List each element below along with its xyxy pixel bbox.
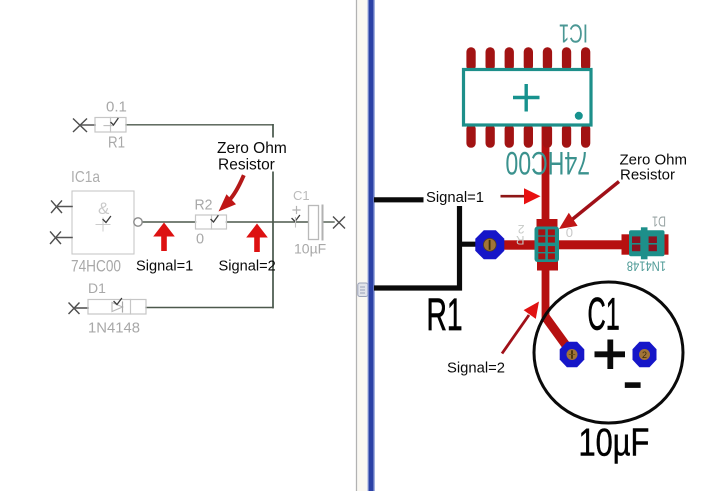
arrow Signal=1 (board) [501, 188, 541, 204]
arrow Signal=2 (schematic) [246, 224, 268, 253]
svg-text:Resistor: Resistor [218, 157, 275, 174]
svg-text:Signal=1: Signal=1 [136, 258, 193, 274]
svg-text:1N4148: 1N4148 [627, 258, 666, 273]
svg-text:R2: R2 [195, 198, 213, 214]
pane gap strip [358, 0, 369, 491]
svg-text:0: 0 [566, 225, 573, 240]
arrow Signal=2 (board) [502, 302, 539, 354]
svg-text:&: & [98, 199, 110, 218]
window border line [356, 0, 358, 491]
label Zero Ohm Resistor (board) [620, 151, 688, 183]
diode D1 (schematic) [69, 280, 146, 337]
wire R2 to C1 [227, 221, 309, 223]
arrow from label to R2 [219, 177, 244, 212]
svg-text:Signal=2: Signal=2 [219, 258, 276, 274]
svg-text:C1: C1 [293, 188, 310, 203]
wire net from R1 to vertical bus [126, 124, 273, 126]
trace via to R2 [490, 240, 537, 249]
diode D1 footprint [622, 227, 669, 259]
LEFT SCHEMATIC PANE [51, 99, 345, 337]
arrow Signal=1 (schematic) [153, 223, 175, 252]
svg-text:74HC00: 74HC00 [505, 145, 590, 181]
svg-text:2: 2 [642, 350, 647, 360]
C1 plus mark [595, 340, 626, 370]
svg-text:D1: D1 [652, 213, 666, 230]
resistor R1 [74, 99, 127, 152]
IC U1 footprint pads (top row) [466, 47, 590, 71]
C1 minus mark [625, 382, 641, 388]
svg-text:Resistor: Resistor [620, 166, 675, 183]
IC U1 footprint pads (bottom row) [466, 124, 590, 148]
splitter handle [358, 283, 368, 297]
trace R2 to D1 [556, 240, 624, 249]
capacitor C1 footprint circle [534, 282, 683, 423]
IC U1 body outline [464, 70, 592, 126]
svg-text:R1: R1 [427, 290, 463, 340]
C1 pad 1 (blue octagon) [560, 342, 585, 368]
resistor R2 footprint [535, 219, 560, 271]
svg-text:Signal=1: Signal=1 [426, 190, 484, 206]
wire C1 right stub [324, 221, 335, 223]
svg-text:IC1a: IC1a [71, 169, 100, 186]
svg-text:1N4148: 1N4148 [88, 320, 140, 337]
wire vertical bus [272, 125, 274, 308]
black stub to via [460, 242, 479, 247]
wire D1 to vertical bus [146, 307, 273, 309]
svg-text:R1: R1 [108, 135, 125, 152]
svg-text:R: R [516, 233, 525, 247]
arrow zero-ohm (board) [559, 182, 619, 230]
wire gate output to R2 [142, 221, 196, 223]
svg-text:10µF: 10µF [294, 241, 326, 257]
trace bend to C1 pad (diagonal) [546, 318, 571, 352]
svg-text:0: 0 [196, 232, 204, 248]
blue divider [368, 0, 375, 491]
IC U1 plus mark [513, 84, 540, 112]
svg-text:Zero Ohm: Zero Ohm [217, 140, 287, 157]
svg-text:0.1: 0.1 [106, 99, 127, 116]
svg-text:10µF: 10µF [579, 421, 650, 464]
label R2 (mirrored, vertical) [516, 222, 525, 247]
trace IC pin to R2 and beyond (vertical red) [542, 124, 550, 322]
label Zero Ohm Resistor (schematic) [214, 138, 287, 174]
svg-text:D1: D1 [88, 280, 106, 296]
RIGHT BOARD PANE [357, 0, 688, 491]
svg-text:Signal=2: Signal=2 [447, 361, 505, 377]
svg-text:74HC00: 74HC00 [71, 258, 121, 276]
IC U1 pin-1 dot [575, 112, 583, 120]
C1 pad 2 (blue octagon) [633, 342, 657, 368]
svg-text:IC1: IC1 [559, 19, 588, 49]
resistor R2 (schematic) [195, 198, 227, 248]
black off-board wire [374, 200, 460, 288]
svg-text:C1: C1 [588, 289, 620, 340]
op-amp/NAND gate IC1a [51, 169, 143, 276]
label Signal=1 (board) [424, 188, 485, 207]
capacitor C1 (schematic) [292, 188, 345, 257]
via (blue octagon) [475, 230, 504, 259]
